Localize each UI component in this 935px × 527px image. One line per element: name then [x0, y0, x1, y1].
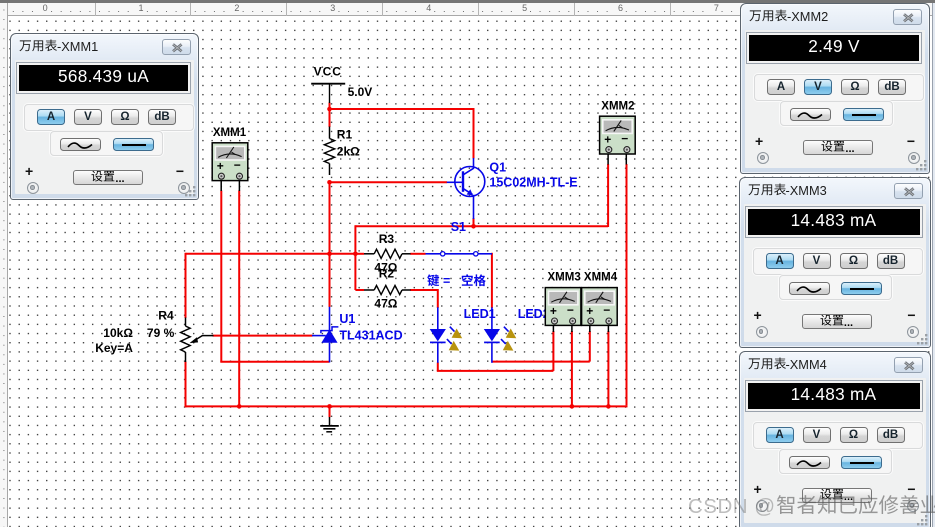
wire R1 bottom to Q1 base: [330, 181, 448, 183]
junction XMM4 minus at rail: [606, 404, 611, 409]
watermark: [688, 495, 935, 522]
svg-text:−: −: [234, 158, 241, 172]
svg-text:R2: R2: [379, 267, 395, 281]
wire XMM2 plus to emitter rail: [607, 164, 609, 227]
svg-text:R1: R1: [337, 127, 353, 141]
svg-text:XMM1: XMM1: [213, 127, 247, 139]
multimeter window XMM3: [739, 177, 931, 348]
shunt regulator U1 TL431ACD: [312, 307, 403, 363]
right screen edge strip: [932, 0, 935, 527]
svg-text:10kΩ: 10kΩ: [103, 326, 133, 340]
wire R2 to LED1 anode: [410, 289, 438, 308]
svg-text:2kΩ: 2kΩ: [337, 145, 360, 159]
wire S1 to LED2 anode: [491, 253, 493, 308]
svg-text:R3: R3: [379, 232, 395, 246]
wire LED1 cathode to XMM3 plus: [437, 331, 554, 371]
ground: [320, 417, 339, 432]
left ruler: [0, 3, 8, 527]
svg-text:R4: R4: [158, 309, 174, 323]
resistor R2: [364, 267, 411, 311]
svg-text:Q1: Q1: [489, 160, 506, 174]
wire Q1 emitter to rail: [473, 218, 475, 226]
svg-text:47Ω: 47Ω: [374, 296, 397, 310]
wire XMM3 minus to ground rail: [571, 331, 573, 406]
svg-text:XMM2: XMM2: [601, 101, 634, 113]
instrument icons XMM3 and XMM4: [545, 271, 617, 332]
LED LED2: [484, 327, 517, 351]
LED LED1: [430, 327, 463, 351]
junction node row at x355: [353, 252, 358, 257]
LED LED2 cathode lead: [491, 342, 493, 362]
wire bottom ground rail: [186, 405, 628, 407]
svg-text:+: +: [604, 133, 611, 147]
wire R2 left stub: [355, 289, 364, 291]
LED LED1 anode lead: [437, 307, 439, 329]
transistor Q1: [447, 158, 578, 219]
wire R1 top junction to Q1 collector (top rail): [330, 108, 475, 159]
potentiometer R4: [95, 309, 213, 362]
svg-text:5.0V: 5.0V: [348, 85, 373, 99]
LED LED1 cathode lead: [437, 342, 439, 362]
wire R4 top to node row y=254: [186, 253, 356, 255]
wire XMM4 minus to ground rail: [607, 331, 609, 406]
svg-text:XMM3 XMM4: XMM3 XMM4: [548, 271, 618, 283]
svg-text:−: −: [621, 132, 628, 146]
wire Q1 emitter rail y=226: [355, 225, 608, 227]
svg-text:+: +: [550, 304, 557, 318]
LED LED2 anode lead: [491, 307, 493, 329]
wire R4 top: [185, 253, 187, 318]
svg-text:VCC: VCC: [314, 65, 342, 79]
svg-text:LED1: LED1: [464, 307, 496, 321]
wire ground stub: [329, 406, 331, 417]
junction XMM1 minus at rail: [237, 404, 242, 409]
wire vertical x=355 connecting emitter rail, node row, R2: [354, 225, 356, 290]
wire XMM1 plus down: [220, 191, 222, 362]
top ruler: [0, 3, 935, 16]
instrument icon XMM1: [212, 127, 248, 191]
label key = space for S1: [0, 0, 935, 1]
svg-text:−: −: [567, 303, 574, 317]
power VCC: [311, 65, 372, 103]
junction R1 top: [327, 107, 332, 112]
multimeter window XMM2: [740, 3, 930, 174]
svg-text:15C02MH-TL-E: 15C02MH-TL-E: [489, 176, 577, 190]
svg-text:U1: U1: [339, 312, 355, 326]
svg-text:S1: S1: [451, 220, 466, 234]
wire R3 left stub: [355, 253, 364, 255]
svg-text:+: +: [217, 159, 224, 173]
junction ground at rail: [327, 404, 332, 409]
wire XMM2 minus down to ground rail: [626, 164, 628, 405]
resistor R1: [324, 127, 360, 176]
svg-text:TL431ACD: TL431ACD: [339, 328, 402, 342]
junction emitter / S1 rail: [471, 224, 476, 229]
wire R1 bottom junction down to U1 cathode: [329, 182, 331, 307]
wire LED2 cathode to XMM4 plus: [492, 331, 590, 362]
wire VCC to R1: [329, 103, 331, 128]
svg-text:79 %: 79 %: [147, 326, 175, 340]
wire U1 anode row to XMM1 plus: [220, 361, 329, 363]
wire R3 to switch S1: [410, 253, 425, 255]
switch S1: [426, 220, 492, 256]
junction XMM3 minus at rail: [570, 404, 575, 409]
wire R4 bottom to ground rail: [185, 362, 187, 408]
instrument icon XMM2: [600, 101, 636, 165]
junction node row at x329: [327, 252, 332, 257]
junction R1 bottom / base node: [327, 180, 332, 185]
svg-text:Key=A: Key=A: [95, 341, 133, 355]
multimeter window XMM1: [10, 33, 199, 200]
resistor R3: [364, 232, 411, 274]
multimeter window XMM4: [739, 351, 931, 527]
svg-text:+: +: [586, 304, 593, 318]
wire XMM1 minus down to ground rail: [238, 191, 240, 407]
svg-text:−: −: [603, 303, 610, 317]
wire R4 wiper to U1 ref: [213, 335, 313, 337]
